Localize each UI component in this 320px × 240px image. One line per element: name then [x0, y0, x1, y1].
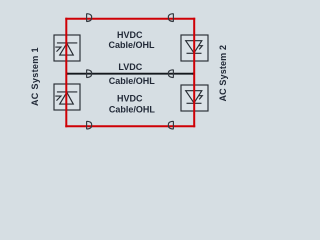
svg-text:Cable/OHL: Cable/OHL — [109, 104, 156, 114]
converter U3 (bottom-left, thyristor box) — [54, 84, 80, 110]
converter U2 (top-right, thyristor box) — [181, 35, 208, 61]
svg-text:Cable/OHL: Cable/OHL — [109, 76, 156, 86]
converter U4 (bottom-right, thyristor box) — [181, 85, 208, 111]
svg-text:LVDC: LVDC — [118, 62, 142, 72]
wire HVDC bottom pole conductor (red) — [65, 125, 195, 127]
svg-text:HVDC: HVDC — [117, 93, 143, 103]
breaker B4 (mid-right D symbol) — [168, 70, 173, 78]
wire right DC bus (red, through converters U2/U4) — [193, 18, 195, 128]
wire LVDC metallic-return conductor (black, middle) — [66, 73, 194, 75]
breaker B3 (mid-left D symbol) — [87, 70, 92, 78]
svg-text:AC System 1: AC System 1 — [30, 47, 40, 106]
breaker B5 (bottom-left D symbol) — [87, 121, 92, 129]
svg-text:HVDC: HVDC — [117, 30, 143, 40]
breaker B1 (top-left D symbol) — [87, 14, 92, 22]
node J1 (LVDC tap on left pole bus) — [66, 73, 68, 75]
node J2 (LVDC tap on right pole bus) — [192, 73, 194, 75]
svg-text:AC System 2: AC System 2 — [218, 45, 228, 102]
breaker B6 (bottom-right D symbol) — [168, 121, 173, 129]
converter U1 (top-left, thyristor box) — [54, 35, 80, 61]
breaker B2 (top-right D symbol) — [168, 14, 173, 22]
wire HVDC top pole conductor (red) — [65, 18, 195, 20]
wire left DC bus (red, through converters U1/U3) — [65, 18, 67, 128]
svg-text:Cable/OHL: Cable/OHL — [108, 40, 155, 50]
